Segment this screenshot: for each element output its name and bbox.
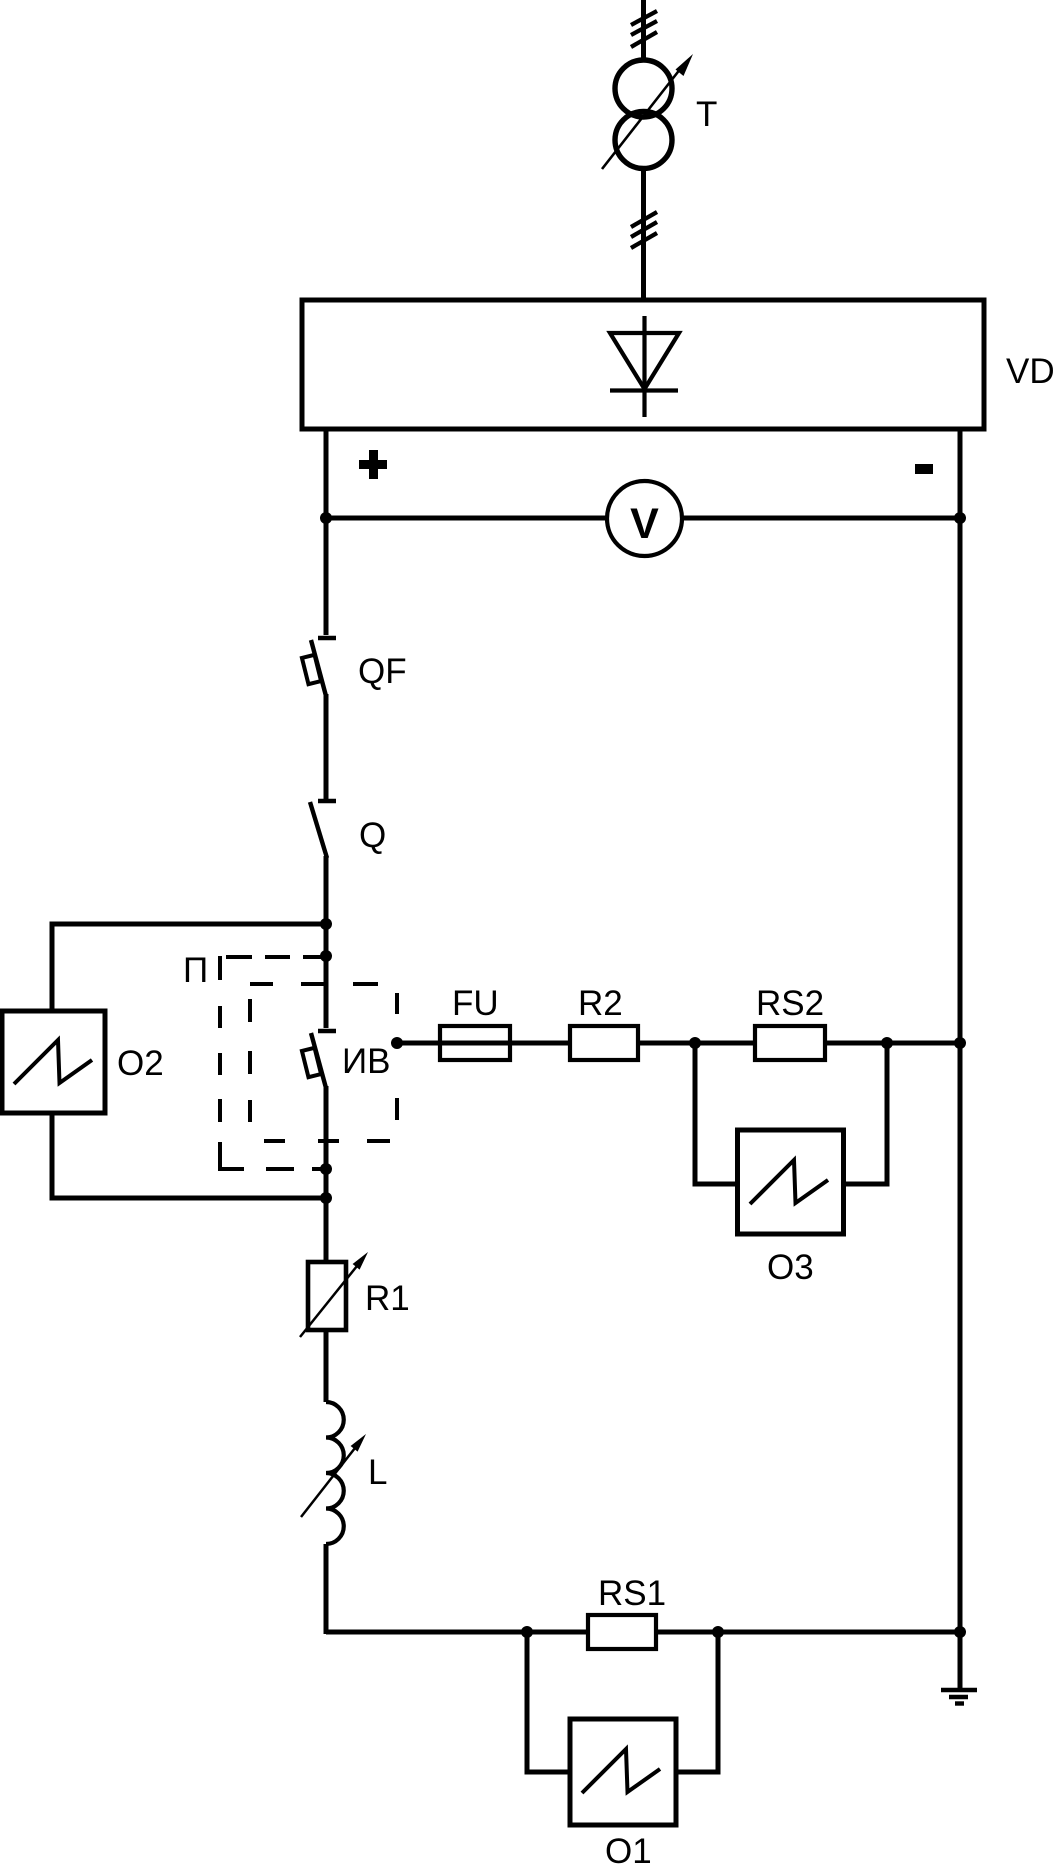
wire O2 top branch: [52, 924, 326, 1011]
switch Q blade: [310, 802, 327, 858]
breaker QF fixed contact: [318, 636, 336, 641]
node bottom right rail: [954, 1626, 966, 1638]
inductor L: [326, 1402, 344, 1544]
wire R1 to L: [324, 1330, 329, 1402]
dashed enclosure inner (ИВ box): [250, 984, 397, 1141]
ground symbol: [941, 1690, 977, 1704]
switch Q fixed contact: [318, 799, 336, 804]
L arrow: [301, 1448, 355, 1517]
switch ИВ blade: [311, 1033, 326, 1088]
wire O3 right branch: [844, 1043, 888, 1184]
svg-text:QF: QF: [358, 652, 407, 691]
wire transformer to VD: [641, 168, 646, 300]
svg-text:FU: FU: [452, 984, 499, 1023]
plus terminal: [359, 450, 387, 479]
bottom rail left of RS1: [326, 1630, 588, 1635]
wire O2 bottom branch: [52, 1113, 326, 1198]
wire ИВ to R1: [324, 1086, 329, 1262]
svg-text:T: T: [696, 95, 717, 134]
node RS2 right: [881, 1037, 893, 1049]
wire VD left drop: [324, 429, 329, 635]
svg-text:Q: Q: [359, 816, 386, 855]
rectifier block VD: [302, 300, 984, 429]
fuse FU: [440, 1026, 510, 1060]
svg-text:O3: O3: [767, 1248, 814, 1287]
node П bottom: [320, 1163, 332, 1175]
hash marks top (3-phase ticks): [631, 11, 657, 47]
node O2 bottom: [320, 1192, 332, 1204]
wire Q to ИВ: [324, 856, 329, 1028]
wire O3 left branch: [695, 1043, 738, 1184]
hash marks lower (3-phase ticks): [631, 212, 657, 248]
wire O1 right branch: [676, 1632, 718, 1772]
wire ИВ output through FU: [397, 1041, 570, 1046]
wire voltmeter right: [682, 516, 960, 521]
oscillograph O3 box: [738, 1130, 844, 1234]
diode symbol inside VD: [642, 316, 646, 417]
node O1 left: [521, 1626, 533, 1638]
breaker QF blade: [311, 640, 326, 696]
svg-text:O2: O2: [117, 1044, 164, 1083]
wire HV feeder top: [641, 0, 646, 62]
resistor R2: [570, 1026, 638, 1060]
node voltmeter left: [320, 512, 332, 524]
svg-text:R2: R2: [578, 984, 623, 1023]
wire VD right drop / right rail: [958, 429, 963, 1688]
O2 impulse symbol: [14, 1040, 92, 1084]
wire O1 left branch: [527, 1632, 570, 1772]
transformer T: [615, 60, 672, 117]
node right rail fuse row: [954, 1037, 966, 1049]
O3 impulse symbol: [750, 1160, 828, 1204]
voltmeter V: [607, 481, 682, 556]
node RS2 left: [689, 1037, 701, 1049]
dashed enclosure П (outer): [220, 956, 326, 1169]
svg-text:O1: O1: [605, 1832, 652, 1866]
wire QF to Q: [324, 694, 329, 799]
svg-text:ИВ: ИВ: [342, 1042, 391, 1081]
wire R2 to RS2: [638, 1041, 755, 1046]
wire RS2 to right rail: [825, 1041, 960, 1046]
R1 arrow: [300, 1266, 357, 1337]
oscillograph O1 box: [570, 1719, 676, 1825]
wire L to bottom rail: [324, 1544, 329, 1634]
svg-text:R1: R1: [365, 1279, 410, 1318]
shunt RS1: [588, 1615, 656, 1649]
node ИВ output: [391, 1037, 403, 1049]
node П top: [320, 950, 332, 962]
wire voltmeter left: [326, 516, 607, 521]
svg-text:V: V: [630, 500, 659, 548]
transformer T regulation arrow: [602, 68, 681, 169]
node O2 top: [320, 918, 332, 930]
node voltmeter right: [954, 512, 966, 524]
svg-text:L: L: [368, 1453, 387, 1492]
switch ИВ fixed contact: [318, 1029, 336, 1034]
svg-text:RS1: RS1: [598, 1574, 666, 1613]
svg-text:VD: VD: [1006, 352, 1054, 391]
O1 impulse symbol: [582, 1749, 660, 1793]
svg-text:RS2: RS2: [756, 984, 824, 1023]
minus terminal: [915, 464, 933, 474]
oscillograph O2 box: [2, 1011, 105, 1113]
node O1 right: [712, 1626, 724, 1638]
rheostat R1: [308, 1262, 346, 1330]
shunt RS2: [755, 1026, 825, 1060]
svg-text:П: П: [183, 951, 208, 990]
bottom rail right of RS1: [656, 1630, 960, 1635]
